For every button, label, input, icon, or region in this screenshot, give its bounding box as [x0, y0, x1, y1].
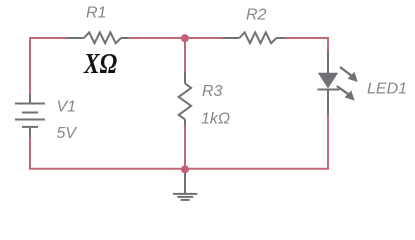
resistor R1 — [68, 32, 130, 43]
wire bottom-right segment — [185, 115, 328, 169]
svg-text:V1: V1 — [57, 99, 77, 116]
wire top middle segment — [130, 37, 222, 39]
svg-text:R1: R1 — [86, 5, 106, 22]
battery V1 — [15, 94, 45, 138]
wire middle lower (R3 to bottom) — [184, 125, 186, 169]
svg-text:R3: R3 — [202, 83, 223, 100]
wire middle upper (node to R3) — [184, 38, 186, 73]
svg-text:LED1: LED1 — [367, 81, 407, 98]
svg-text:R2: R2 — [246, 7, 267, 24]
svg-text:XΩ: XΩ — [83, 49, 117, 80]
ground — [173, 169, 197, 200]
LED LED1 — [318, 51, 358, 115]
svg-text:1kΩ: 1kΩ — [201, 111, 230, 128]
svg-text:5V: 5V — [57, 125, 78, 142]
wire bottom-left segment — [30, 138, 185, 169]
junction node A (top) — [181, 34, 189, 42]
resistor R2 — [222, 32, 284, 43]
junction node B (bottom/ground) — [181, 165, 189, 173]
wire top-right segment with corner — [285, 38, 328, 51]
wire top-left and left upper segment — [30, 38, 68, 94]
resistor R3 — [179, 73, 191, 126]
